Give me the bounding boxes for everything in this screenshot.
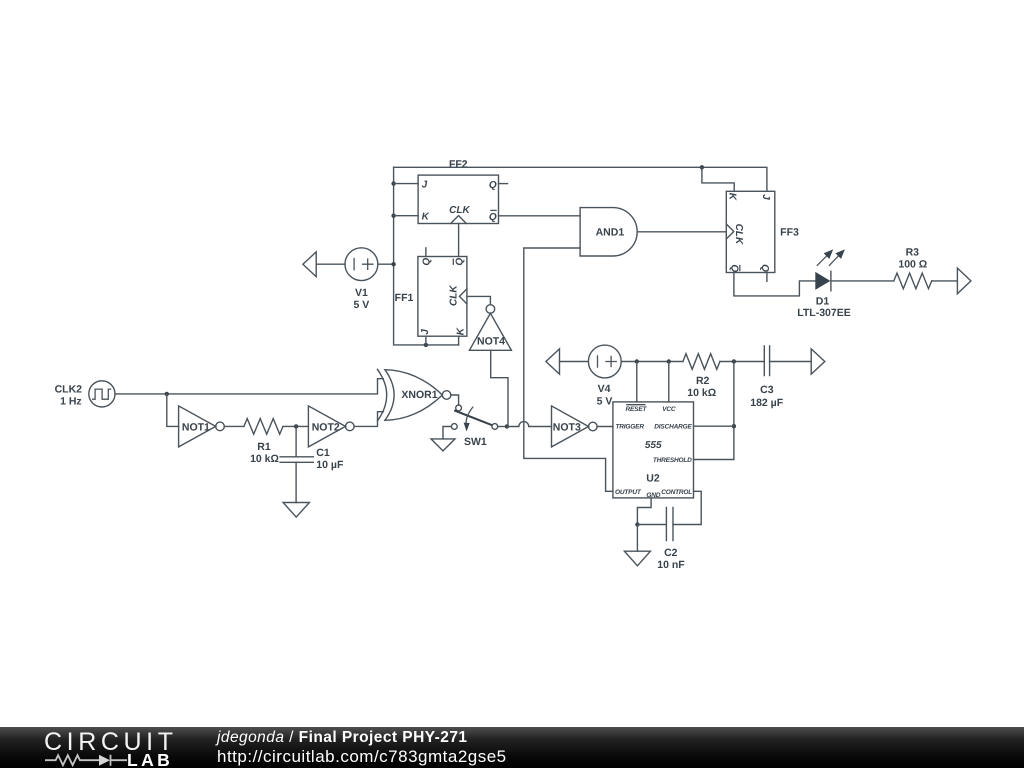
wire junction down to NOT1 input	[167, 394, 179, 427]
inverter NOT2	[308, 406, 354, 447]
node junction FF1 J	[424, 343, 428, 347]
wire rail to FF2 K	[394, 215, 419, 217]
svg-text:AND1: AND1	[596, 227, 625, 239]
footer bar	[0, 727, 1024, 768]
svg-text:VCC: VCC	[662, 406, 676, 413]
capacitor C3	[750, 346, 783, 409]
ground flag at V1	[303, 252, 316, 277]
wire flag to V1	[316, 263, 345, 265]
wire AND1 output to FF3 CLK	[637, 231, 726, 233]
capacitor C1	[280, 447, 344, 471]
svg-text:CLK2: CLK2	[55, 384, 83, 396]
svg-text:NOT3: NOT3	[553, 421, 581, 433]
svg-text:Q: Q	[729, 264, 740, 272]
svg-text:V4: V4	[598, 383, 611, 395]
wire junction to VCC pin	[668, 362, 670, 402]
wire C1 to ground	[295, 462, 297, 502]
switch SW1	[451, 405, 497, 448]
resistor R3	[894, 246, 932, 288]
svg-text:100 Ω: 100 Ω	[898, 259, 927, 271]
ground under C1	[283, 503, 309, 518]
node junction R1/C1/NOT2	[294, 424, 298, 428]
svg-text:RESET: RESET	[626, 406, 648, 413]
wire 555 GND pin	[637, 498, 651, 525]
svg-text:1 Hz: 1 Hz	[60, 395, 82, 407]
node junction CLK2 branch	[165, 392, 169, 396]
svg-text:FF2: FF2	[449, 159, 468, 171]
node flag right of C3	[811, 349, 825, 374]
node junction top net	[700, 165, 704, 169]
wire FF2 top net	[394, 167, 767, 191]
resistor R1	[244, 419, 283, 465]
svg-text:5 V: 5 V	[354, 299, 370, 311]
svg-text:Q: Q	[422, 258, 433, 266]
svg-text:OUTPUT: OUTPUT	[615, 489, 642, 496]
node junction GND net	[635, 522, 639, 526]
node junction rail V1	[391, 262, 395, 266]
logo CIRCUIT	[44, 728, 178, 757]
flip-flop FF2	[418, 159, 498, 224]
node junction rail J	[391, 181, 395, 185]
wire R2 to C3	[720, 361, 764, 363]
wire junction to C2	[637, 524, 666, 526]
svg-text:K: K	[727, 193, 738, 201]
wire FF2 CLK to FF1 Qbar	[458, 224, 460, 257]
wire FF3 Qbar to LED D1	[734, 273, 815, 296]
inverter NOT3	[552, 406, 598, 447]
LED D1	[797, 249, 850, 319]
svg-text:J: J	[422, 180, 428, 191]
svg-text:CLK: CLK	[449, 205, 470, 216]
svg-text:555: 555	[645, 440, 662, 451]
svg-text:5 V: 5 V	[597, 396, 613, 408]
wire junction to DISCHARGE pin	[694, 425, 734, 427]
node junction RESET	[635, 359, 639, 363]
svg-text:NOT2: NOT2	[312, 421, 340, 433]
svg-text:C2: C2	[664, 547, 678, 559]
wire FF1 J stub	[425, 336, 427, 345]
wire flag to V4	[560, 361, 589, 363]
wire top net to FF3 K	[702, 167, 734, 191]
svg-text:Q: Q	[489, 180, 497, 191]
svg-text:10 kΩ: 10 kΩ	[250, 453, 279, 465]
wire FF2 Q stub	[499, 183, 508, 185]
node junction discharge net	[732, 359, 736, 363]
wire XNOR1 output to switch	[451, 395, 459, 405]
svg-text:10 kΩ: 10 kΩ	[687, 387, 716, 399]
svg-text:182 µF: 182 µF	[750, 397, 783, 409]
wire CLK2 to XNOR1 upper input	[115, 379, 383, 394]
node junction rail K	[391, 214, 395, 218]
svg-text:CONTROL: CONTROL	[661, 489, 692, 496]
wire V4 to R2	[621, 361, 683, 363]
wire AND1 lower input from 555 output	[524, 248, 613, 491]
svg-text:CLK: CLK	[449, 285, 460, 306]
svg-text:THRESHOLD: THRESHOLD	[653, 457, 692, 464]
url text	[217, 747, 507, 767]
svg-text:Q: Q	[454, 258, 465, 266]
svg-text:R2: R2	[696, 375, 710, 387]
wire junction up to NOT4 input	[491, 350, 508, 426]
gate XNOR1	[377, 369, 451, 421]
ground flag at V4	[546, 349, 560, 374]
clock source CLK2	[55, 381, 115, 408]
wire R3 to output flag	[932, 280, 958, 282]
svg-text:10 µF: 10 µF	[316, 459, 344, 471]
wire FF1 K stub	[458, 336, 460, 345]
wire C3 to flag	[770, 361, 812, 363]
wire rail to FF2 J	[394, 183, 419, 185]
wire NOT4 output to FF1 CLK	[467, 296, 491, 304]
svg-text:R3: R3	[906, 246, 920, 258]
svg-text:C1: C1	[316, 447, 330, 459]
svg-text:FF3: FF3	[780, 227, 799, 239]
capacitor C2	[657, 508, 685, 572]
svg-text:Q: Q	[759, 264, 770, 272]
svg-text:SW1: SW1	[464, 436, 487, 448]
svg-text:K: K	[455, 327, 466, 335]
wire FF1 Q stub	[425, 248, 427, 257]
svg-text:TRIGGER: TRIGGER	[616, 424, 645, 431]
gate AND1	[580, 208, 637, 256]
wire C2 to CONTROL pin	[673, 491, 701, 524]
svg-text:FF1: FF1	[395, 292, 414, 304]
wire switch left terminal to ground	[443, 427, 451, 439]
svg-text:U2: U2	[646, 473, 660, 485]
voltage source V4	[588, 345, 621, 407]
wire junction to NOT3 input with hop	[509, 422, 551, 427]
svg-text:D1: D1	[816, 296, 830, 308]
svg-text:NOT4: NOT4	[477, 335, 505, 347]
node junction switch output	[505, 424, 509, 428]
timer U2 555	[613, 402, 694, 499]
svg-text:R1: R1	[257, 441, 271, 453]
wire R1 to NOT2 input	[283, 425, 308, 427]
svg-text:NOT1: NOT1	[182, 421, 210, 433]
node junction VCC	[667, 359, 671, 363]
node junction DISCHARGE	[732, 424, 736, 428]
wire junction down to C1	[295, 426, 297, 456]
ground under SW1	[431, 439, 455, 451]
voltage source V1	[345, 248, 378, 311]
flip-flop FF1	[395, 257, 467, 337]
inverter NOT4	[469, 305, 511, 351]
wire V1 to rail	[378, 263, 394, 265]
title text	[217, 729, 468, 747]
svg-text:LTL-307EE: LTL-307EE	[797, 307, 850, 319]
svg-text:V1: V1	[355, 287, 368, 299]
wire FF2 Qbar to AND1 upper input	[499, 215, 581, 217]
logo squiggle	[44, 752, 130, 768]
svg-text:DISCHARGE: DISCHARGE	[654, 424, 692, 431]
wire discharge vertical	[694, 362, 734, 460]
wire junction to RESET pin	[636, 362, 638, 402]
inverter NOT1	[179, 406, 225, 447]
resistor R2	[683, 354, 720, 399]
svg-text:Q: Q	[489, 212, 497, 223]
node flag right of R3	[957, 268, 971, 294]
ground under 555	[624, 551, 650, 566]
wire NOT2 to XNOR1 lower input	[354, 412, 383, 427]
svg-text:10 nF: 10 nF	[657, 559, 685, 571]
svg-text:XNOR1: XNOR1	[401, 389, 437, 401]
flip-flop FF3	[726, 191, 799, 272]
wire junction to ground	[636, 525, 638, 552]
svg-text:K: K	[422, 212, 430, 223]
wire FF3 Q stub	[766, 273, 768, 282]
wire NOT3 to 555 TRIGGER	[597, 426, 613, 428]
wire switch right terminal to junction	[498, 426, 507, 428]
svg-text:CLK: CLK	[733, 224, 744, 245]
svg-text:C3: C3	[760, 384, 774, 396]
logo LAB	[127, 750, 173, 771]
wire NOT1 to R1	[224, 425, 244, 427]
svg-text:J: J	[760, 194, 771, 200]
svg-text:GND: GND	[646, 492, 660, 499]
svg-text:J: J	[420, 329, 431, 335]
wire D1 to R3	[831, 280, 894, 282]
wire V1 rail vertical	[394, 167, 459, 345]
